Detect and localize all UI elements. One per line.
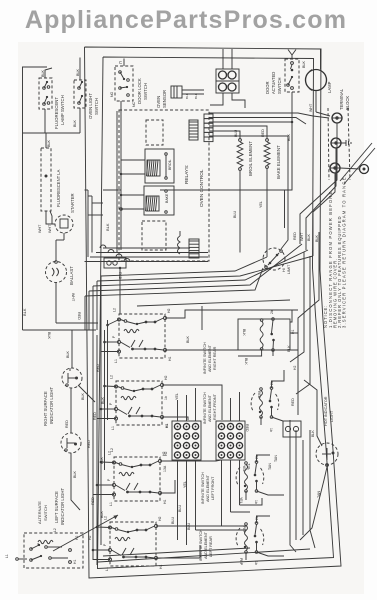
- svg-text:RED: RED: [93, 412, 97, 420]
- fluorescent lamp FL1: [41, 133, 51, 219]
- svg-text:SWITCH: SWITCH: [277, 77, 282, 94]
- wire broil element down BLU: [233, 171, 240, 253]
- svg-text:BLK: BLK: [73, 119, 77, 127]
- svg-text:L2: L2: [113, 308, 117, 312]
- notice text block: [323, 174, 347, 328]
- label BROIL ELEMENT: [248, 141, 253, 176]
- label C door lock: [119, 60, 122, 65]
- svg-text:RED: RED: [87, 440, 91, 448]
- svg-text:2b: 2b: [255, 516, 259, 520]
- label ALTERNATE SWITCH: [37, 501, 48, 524]
- label BLK sensor wires: [185, 92, 198, 99]
- label INFINITE SWITCH AND ELEMENT LEFT FRONT: [201, 472, 215, 504]
- svg-text:H2: H2: [164, 375, 168, 380]
- svg-text:RED: RED: [261, 129, 265, 137]
- broil relay K1: [145, 149, 174, 183]
- label BLK below SW1: [47, 139, 51, 147]
- svg-text:BROIL ELEMENT: BROIL ELEMENT: [248, 141, 253, 176]
- svg-text:1b: 1b: [164, 396, 168, 400]
- wire bus diag cluster: [85, 248, 209, 262]
- svg-text:BLK: BLK: [287, 133, 291, 141]
- svg-text:AppliancePartsPros.com: AppliancePartsPros.com: [25, 6, 347, 34]
- wire right bus2: [290, 252, 310, 552]
- starter ST1: [46, 215, 73, 240]
- svg-text:WHT: WHT: [309, 103, 313, 112]
- label YEL BLU left: [175, 393, 182, 512]
- label OVEN SENSOR: [156, 90, 167, 108]
- svg-text:WHT: WHT: [71, 293, 75, 302]
- wire lamp bus horizontal: [23, 132, 81, 134]
- svg-text:FLUORESCENT: FLUORESCENT: [54, 97, 59, 129]
- svg-text:TERMINAL: TERMINAL: [339, 88, 344, 110]
- label HI LIMIT: [282, 264, 291, 274]
- svg-text:BLK: BLK: [186, 335, 190, 343]
- svg-text:YEL: YEL: [242, 465, 246, 472]
- wire cluster taps C3: [93, 461, 114, 495]
- svg-text:FLUORESCENT LA: FLUORESCENT LA: [56, 169, 61, 207]
- label BLK col3: [88, 510, 104, 540]
- svg-text:BLU: BLU: [233, 210, 237, 218]
- label BLU pair: [171, 516, 191, 530]
- svg-text:RIGHT SURFACE: RIGHT SURFACE: [43, 391, 48, 426]
- svg-text:HI: HI: [282, 268, 286, 272]
- svg-text:LIMIT: LIMIT: [287, 264, 291, 274]
- wire ground diagonals: [340, 143, 375, 184]
- wire cluster taps C4: [92, 526, 110, 560]
- wire mid column verticals: [117, 248, 121, 314]
- hatched box H1: [189, 239, 199, 258]
- broil element R1: [237, 139, 243, 171]
- label OVEN CONTROL: [199, 169, 204, 207]
- element right front E2: [245, 381, 295, 432]
- alternate switch SW10: [16, 533, 83, 568]
- svg-text:2b: 2b: [270, 310, 274, 314]
- svg-text:L2: L2: [53, 528, 57, 532]
- wire bus lower band: [137, 300, 290, 330]
- svg-text:L1: L1: [114, 359, 118, 363]
- svg-text:BLK: BLK: [244, 358, 248, 365]
- svg-text:3.SERVICER PLEASE RETURN DIAGR: 3.SERVICER PLEASE RETURN DIAGRAM TO RANG…: [342, 174, 347, 328]
- bake element R2: [264, 139, 270, 169]
- svg-text:BAKE: BAKE: [165, 193, 169, 203]
- svg-text:BLK: BLK: [311, 430, 315, 437]
- left surface indicator light DS2: [61, 433, 81, 476]
- wire cluster bus verticals: [93, 320, 108, 565]
- fluorescent lamp switch SW1: [39, 78, 52, 109]
- wire element links E2: [261, 370, 284, 425]
- label STARTER: [70, 193, 75, 213]
- connector grid J3: [216, 421, 245, 460]
- ground symbol: [341, 140, 351, 146]
- svg-text:INFINITE SWITCH: INFINITE SWITCH: [203, 342, 207, 374]
- label DOOR ACTUATED SWITCH: [265, 72, 282, 94]
- label DOOR LOCK SWITCH: [137, 78, 148, 104]
- svg-text:H2: H2: [158, 516, 162, 521]
- svg-text:L1: L1: [109, 502, 113, 506]
- svg-text:BLU: BLU: [187, 522, 191, 530]
- label BLK element: [287, 133, 291, 141]
- terminal block TB1 outline: [328, 108, 350, 180]
- svg-text:H1: H1: [73, 560, 77, 564]
- wire SW2 bottom to bus: [79, 108, 81, 133]
- svg-text:BALLAST: BALLAST: [69, 266, 74, 285]
- wire relay feeds: [120, 111, 145, 250]
- svg-text:SWITCH: SWITCH: [143, 83, 148, 100]
- wire c4 right links: [156, 526, 246, 558]
- wire ds1 to ds2: [70, 388, 72, 433]
- svg-text:LEFT SURFACE: LEFT SURFACE: [54, 491, 59, 523]
- svg-text:RED: RED: [96, 364, 100, 372]
- door lock switch SW3: [115, 66, 133, 101]
- wire ballast to bottom bus: [56, 322, 98, 324]
- hot indicator light DS3: [316, 420, 338, 466]
- wire hot light feed: [304, 380, 317, 420]
- wire connector down: [210, 93, 245, 108]
- screw terminal: [360, 165, 369, 174]
- svg-text:YEL: YEL: [239, 497, 243, 504]
- arrow alternate switch: [53, 515, 118, 551]
- wire connector up right: [231, 49, 233, 69]
- svg-text:WHT: WHT: [48, 224, 52, 233]
- wire verticals mid bundle: [85, 111, 122, 257]
- label BAKE ELEMENT: [276, 145, 281, 179]
- wire c3 right links: [160, 460, 221, 493]
- wire bus left drops: [85, 276, 101, 330]
- display module dashed: [142, 221, 166, 250]
- svg-text:LAMP SWITCH: LAMP SWITCH: [60, 95, 65, 125]
- svg-text:BLK: BLK: [101, 396, 105, 404]
- infinite switch SW7 right front: [109, 375, 169, 430]
- svg-text:INFINITE SWITCH: INFINITE SWITCH: [203, 392, 207, 424]
- wire hot light bottom: [300, 467, 327, 540]
- svg-text:L1: L1: [105, 567, 109, 571]
- bake relay K2: [144, 186, 174, 215]
- wire control to elements top: [209, 113, 329, 143]
- wire door lock sw up: [123, 59, 125, 67]
- svg-text:BAKE ELEMENT: BAKE ELEMENT: [276, 145, 281, 179]
- svg-text:TAN: TAN: [268, 463, 272, 470]
- label NO NC: [110, 91, 136, 107]
- wire left vertical bus: [23, 67, 48, 330]
- label RED BLK col1: [93, 364, 105, 420]
- svg-text:BLK: BLK: [76, 68, 80, 76]
- svg-text:RED: RED: [293, 232, 297, 240]
- svg-text:TAN: TAN: [274, 455, 278, 462]
- terminal TB1-3: [330, 163, 340, 173]
- terminal TB1-2: [331, 138, 341, 148]
- outer border frame: [85, 47, 342, 578]
- svg-text:LAMP: LAMP: [327, 81, 332, 93]
- element left front E3: [236, 455, 264, 504]
- label BLK right c1: [186, 335, 190, 343]
- svg-text:HOT INDICATOR: HOT INDICATOR: [324, 396, 328, 426]
- svg-text:BLK: BLK: [22, 308, 27, 316]
- svg-text:OVEN LIGHT: OVEN LIGHT: [88, 93, 93, 119]
- label RELAYS: [184, 165, 189, 184]
- pin connector J1: [204, 114, 213, 142]
- wire grid bottom links: [196, 498, 263, 530]
- svg-text:BLK: BLK: [47, 139, 51, 147]
- svg-text:L2: L2: [110, 448, 114, 452]
- svg-text:L1: L1: [5, 554, 9, 558]
- svg-text:2b: 2b: [255, 455, 259, 459]
- label FLUORESCENT LAMP: [56, 169, 61, 207]
- svg-text:H1: H1: [168, 356, 172, 361]
- svg-text:BROIL: BROIL: [168, 159, 172, 170]
- label BLK relay feed: [105, 223, 110, 231]
- label BLK hot light: [311, 430, 315, 437]
- svg-text:PBP: PBP: [242, 526, 246, 534]
- label BLK ds1 diag: [81, 392, 85, 400]
- svg-text:INDICATOR LIGHT: INDICATOR LIGHT: [49, 387, 54, 424]
- door lock motor connector P1: [216, 69, 239, 93]
- svg-text:RED: RED: [77, 312, 81, 320]
- label RED bake: [261, 129, 265, 137]
- label HOT INDICATOR LIGHT: [324, 396, 334, 426]
- label BALLAST: [69, 266, 74, 285]
- label INFINITE SWITCH AND ELEMENT RIGHT FRONT: [203, 392, 217, 424]
- wire cluster taps C2: [97, 385, 116, 419]
- right surface indicator light DS1: [62, 330, 95, 402]
- label 2b TAN: [268, 455, 278, 470]
- wire sw4 bottom drop: [291, 92, 293, 190]
- svg-text:OVEN: OVEN: [156, 96, 161, 108]
- svg-text:AND ELEMENT: AND ELEMENT: [208, 394, 212, 422]
- svg-text:BLK: BLK: [307, 233, 311, 241]
- svg-text:AND ELEMENT: AND ELEMENT: [208, 344, 212, 372]
- svg-text:RED: RED: [291, 398, 295, 406]
- label RED ds1: [65, 420, 69, 428]
- door actuated switch SW4: [285, 59, 299, 92]
- svg-text:BLK: BLK: [194, 92, 198, 99]
- svg-text:K1: K1: [165, 424, 169, 428]
- oven sensor RT1: [171, 86, 204, 98]
- svg-text:ACTUATED: ACTUATED: [271, 72, 276, 94]
- svg-text:BLU: BLU: [234, 129, 238, 137]
- infinite switch SW9 left rear: [103, 516, 163, 571]
- wire starter to ballast: [56, 239, 64, 241]
- element right rear E1: [238, 310, 290, 365]
- svg-text:L2: L2: [110, 375, 114, 379]
- label OVEN LIGHT SWITCH: [88, 93, 99, 119]
- svg-text:H2: H2: [293, 366, 297, 370]
- svg-text:BLK: BLK: [66, 350, 70, 358]
- svg-text:INDICATOR LIGHT: INDICATOR LIGHT: [60, 488, 65, 525]
- svg-text:BLK: BLK: [105, 223, 110, 231]
- label BROIL relay: [168, 159, 172, 170]
- wire door lock sw down: [120, 101, 122, 111]
- svg-text:NC: NC: [132, 101, 136, 107]
- inner border frame: [98, 57, 334, 569]
- labels alt switch pins: [5, 528, 79, 564]
- wire c1 right links: [165, 310, 298, 350]
- wire sw4 top split: [288, 50, 296, 60]
- svg-text:RED: RED: [91, 497, 95, 505]
- svg-text:BLU: BLU: [171, 516, 175, 524]
- connector plug mid: [104, 258, 126, 280]
- label BLK mid-left2: [47, 332, 51, 340]
- svg-text:YEL: YEL: [259, 201, 263, 208]
- svg-text:BLOCK: BLOCK: [345, 96, 350, 110]
- label K1 H2 13A: [163, 424, 169, 472]
- wire cluster taps C1: [101, 320, 119, 352]
- coil L2: [178, 231, 181, 254]
- terminal TB1-1: [316, 112, 342, 123]
- svg-text:H2: H2: [164, 451, 168, 456]
- label TAN hot wire: [317, 491, 321, 498]
- wire blk drop mid: [160, 121, 293, 232]
- svg-text:BLK: BLK: [47, 332, 51, 340]
- wire SW1 bottom to bus: [44, 109, 46, 133]
- hi limit switch SW5: [263, 248, 285, 270]
- svg-text:BLU: BLU: [178, 504, 182, 512]
- svg-text:INFINITE SWITCH: INFINITE SWITCH: [201, 472, 205, 504]
- svg-text:YEL: YEL: [175, 393, 179, 400]
- svg-text:1b: 1b: [269, 428, 273, 432]
- wire bake element down YEL: [259, 169, 267, 258]
- svg-text:RED: RED: [245, 424, 249, 432]
- connector grid J2: [172, 421, 201, 460]
- wire terminal drops: [300, 123, 337, 256]
- wire main bus band: [85, 244, 313, 296]
- svg-text:BLK: BLK: [100, 510, 104, 518]
- svg-text:RIGHT-FRONT: RIGHT-FRONT: [213, 393, 217, 420]
- wire bottom inner bus: [98, 548, 310, 562]
- svg-text:L2: L2: [104, 516, 108, 520]
- wire SW1 to top corner: [45, 68, 52, 78]
- svg-text:13A: 13A: [163, 465, 167, 472]
- svg-text:RED: RED: [65, 420, 69, 428]
- wire grid drops: [178, 460, 240, 545]
- label INFINITE SWITCH AND ELEMENT LEFT REAR: [199, 529, 213, 561]
- svg-text:BLK: BLK: [287, 345, 291, 352]
- svg-text:DOOR LOCK: DOOR LOCK: [137, 78, 142, 104]
- label WHT lamp: [309, 103, 313, 112]
- svg-text:BLK: BLK: [100, 456, 104, 464]
- svg-text:1b: 1b: [254, 500, 258, 504]
- wire element links E1: [238, 310, 298, 356]
- label RIGHT SURFACE INDICATOR LIGHT: [43, 387, 54, 426]
- wire element links E3: [246, 455, 284, 500]
- wire right long bus: [298, 232, 319, 548]
- infinite switch SW8 left front: [107, 451, 167, 506]
- wire left frame lower link: [23, 329, 97, 331]
- ballast B1: [46, 240, 67, 323]
- wire element links E4: [246, 516, 284, 560]
- svg-text:SENSOR: SENSOR: [162, 90, 167, 108]
- label BLK below SW2: [73, 119, 77, 127]
- label H2 right mid: [287, 345, 297, 370]
- label RED BLK col2: [87, 440, 114, 505]
- svg-text:H2: H2: [167, 308, 171, 313]
- svg-text:LIGHT: LIGHT: [330, 410, 334, 422]
- label BLU broil: [234, 129, 238, 137]
- svg-text:WHT: WHT: [38, 224, 42, 233]
- plug connector P2: [283, 421, 301, 437]
- label FLUORESCENT LAMP SWITCH: [54, 95, 65, 129]
- label BLK ds1: [66, 350, 70, 358]
- svg-text:H1: H1: [163, 499, 167, 504]
- label BAKE relay: [165, 193, 169, 203]
- svg-text:1b: 1b: [254, 561, 258, 565]
- svg-text:DOOR: DOOR: [265, 81, 270, 94]
- svg-text:H1: H1: [159, 564, 163, 569]
- svg-text:C: C: [119, 60, 122, 65]
- lamp LP1: [306, 49, 327, 112]
- label WHT pair: [38, 224, 52, 233]
- label BLK left bus: [22, 308, 27, 316]
- oven light switch SW2: [74, 80, 86, 108]
- wire lamp second lead: [50, 211, 55, 224]
- label BLK above SW2: [76, 68, 80, 76]
- svg-text:LEFT REAR: LEFT REAR: [209, 536, 213, 557]
- svg-text:RELAYS:: RELAYS:: [184, 165, 189, 184]
- svg-text:NO: NO: [110, 91, 114, 97]
- svg-text:YEL: YEL: [247, 463, 251, 470]
- wire grid tops: [178, 388, 240, 421]
- label WHT ballast: [71, 293, 75, 302]
- svg-text:WHT: WHT: [300, 232, 304, 241]
- label YEL grid: [183, 481, 187, 488]
- svg-text:L1: L1: [111, 426, 115, 430]
- label BLK ds2: [73, 470, 77, 478]
- label RED WHT BLK BLK col: [293, 232, 319, 242]
- oven control board box U1: [119, 110, 209, 261]
- svg-text:RED: RED: [257, 391, 261, 399]
- label LEFT SURFACE INDICATOR LIGHT: [54, 488, 65, 525]
- svg-text:SWITCH: SWITCH: [94, 98, 99, 115]
- svg-text:AND ELEMENT: AND ELEMENT: [206, 474, 210, 502]
- svg-text:LEFT FRONT: LEFT FRONT: [211, 476, 215, 500]
- svg-text:RIGHT REAR: RIGHT REAR: [213, 346, 217, 370]
- infinite switch SW6 right rear: [112, 308, 172, 363]
- watermark AppliancePartsPros.com: [25, 6, 347, 34]
- label TERMINAL BLOCK: [339, 88, 350, 110]
- label BLK above SW1: [41, 69, 45, 77]
- wire SW2 top to inner frame: [79, 58, 81, 81]
- display module dashed top: [146, 120, 163, 145]
- wire c2 right links: [162, 385, 222, 420]
- connector block dark: [189, 120, 198, 140]
- element left rear E4: [236, 516, 264, 566]
- svg-text:H2: H2: [88, 535, 92, 540]
- connector arcs: [100, 245, 130, 262]
- svg-text:BLK: BLK: [242, 329, 246, 336]
- label LAMP: [327, 81, 332, 93]
- label RED mid-left: [77, 312, 81, 320]
- svg-text:PBP: PBP: [239, 558, 243, 566]
- svg-text:BLK: BLK: [73, 470, 77, 478]
- wire hi limit top: [281, 232, 288, 249]
- svg-text:SWITCH: SWITCH: [43, 505, 48, 521]
- svg-text:BLK: BLK: [185, 92, 189, 99]
- svg-text:BLK: BLK: [315, 234, 319, 242]
- svg-text:BLK: BLK: [41, 69, 45, 77]
- label BLK right of sw4: [302, 60, 306, 68]
- svg-text:OVEN CONTROL: OVEN CONTROL: [199, 169, 204, 207]
- svg-text:BLK: BLK: [302, 60, 306, 68]
- svg-text:ALTERNATE: ALTERNATE: [37, 501, 42, 524]
- label INFINITE SWITCH AND ELEMENT RIGHT REAR: [203, 342, 217, 374]
- svg-text:STARTER: STARTER: [70, 193, 75, 213]
- svg-text:BLK: BLK: [81, 392, 85, 400]
- wire ds2 down: [71, 476, 80, 510]
- svg-text:2b: 2b: [270, 381, 274, 385]
- wire connector up left: [222, 49, 224, 69]
